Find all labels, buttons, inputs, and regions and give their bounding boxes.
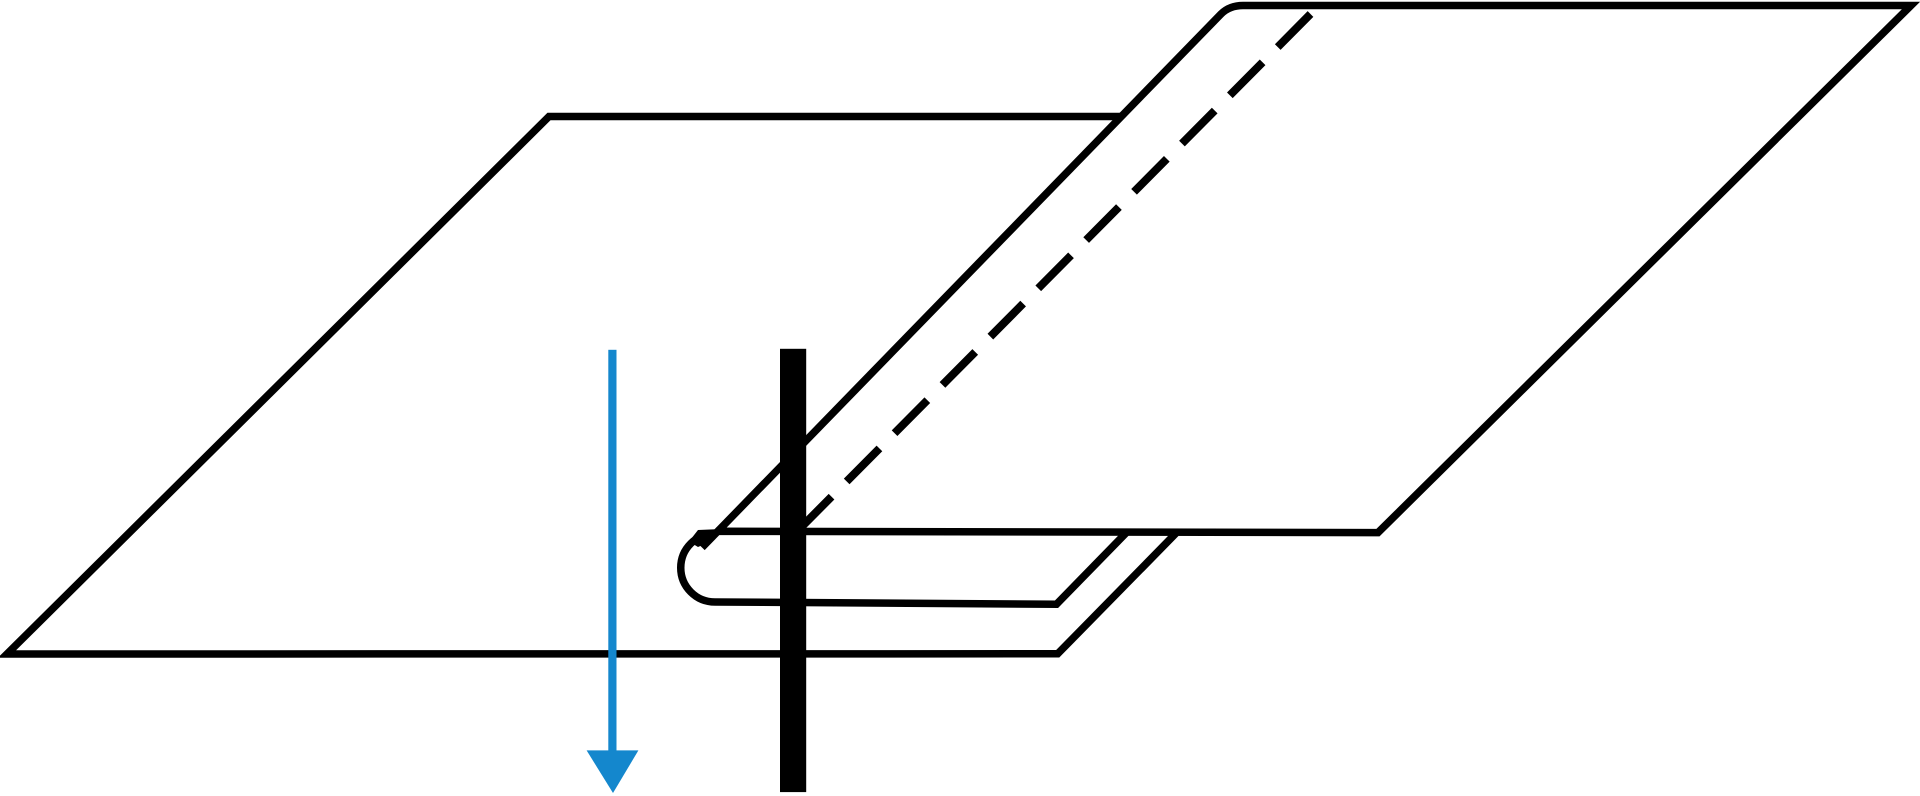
needle bar [780, 349, 806, 792]
right fabric panel outline [702, 6, 1911, 548]
blue arrow shaft [608, 350, 616, 755]
folded hem cap and underside [681, 533, 1126, 604]
fold junction fill [689, 529, 722, 547]
blue arrow head [587, 750, 639, 793]
dashed crease line [797, 14, 1311, 532]
left fabric panel outline [7, 117, 1176, 655]
